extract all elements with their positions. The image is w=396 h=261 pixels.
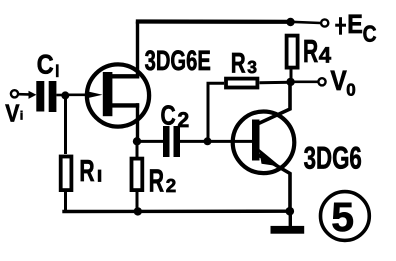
svg-text:C: C: [161, 100, 176, 131]
resistor R3: [226, 79, 257, 88]
arrow into C1: [29, 91, 37, 99]
wire C1 to node A: [56, 94, 65, 97]
transistor Q1 collector lead: [110, 74, 139, 78]
resistor R4: [287, 36, 298, 68]
wire R4 to node B: [290, 70, 293, 83]
wire C2 to node C: [180, 140, 208, 143]
node C junction dot: [204, 137, 212, 145]
node A junction dot: [61, 91, 69, 99]
wire node C to Q2 base: [208, 140, 253, 143]
transistor Q2 base bar: [252, 120, 260, 161]
svg-text:2: 2: [177, 108, 189, 132]
junction dot ground: [286, 207, 295, 216]
svg-text:R: R: [231, 47, 246, 79]
transistor Q1 base bar: [103, 72, 113, 116]
wire R1 to bottom rail: [64, 192, 67, 212]
top rail wire: [136, 19, 291, 23]
wire node B to V0 terminal: [291, 81, 318, 84]
svg-text:V: V: [5, 101, 20, 128]
resistor R1: [61, 157, 72, 191]
svg-text:2: 2: [166, 175, 176, 196]
ground stem: [289, 211, 292, 227]
svg-text:V: V: [330, 65, 347, 96]
input terminal Vi: [11, 90, 18, 97]
svg-text:R: R: [303, 33, 318, 69]
svg-text:C: C: [363, 20, 377, 46]
resistor R2: [132, 159, 143, 191]
node B junction dot: [286, 78, 294, 86]
svg-text:R: R: [149, 163, 164, 199]
svg-text:3: 3: [247, 57, 257, 77]
junction dot C2 left: [133, 137, 141, 145]
wire R2 top: [136, 141, 139, 157]
svg-text:R: R: [79, 155, 94, 188]
wire R3 left leg: [208, 83, 224, 141]
svg-text:0: 0: [346, 81, 355, 100]
junction dot top rail / R4: [286, 18, 294, 26]
svg-text:i: i: [20, 109, 23, 123]
svg-text:5: 5: [331, 194, 354, 240]
transistor Q2 circle: [233, 112, 295, 174]
transistor Q2 emitter lead with arrow: [258, 155, 291, 212]
svg-text:3DG6: 3DG6: [304, 140, 362, 175]
wire input to C1: [18, 93, 33, 96]
figure number circle: [321, 192, 370, 241]
svg-text:4: 4: [319, 42, 332, 67]
terminal V0: [318, 78, 325, 85]
wire R2 to bottom rail: [136, 192, 139, 212]
bottom rail wire: [62, 209, 291, 213]
svg-text:3DG6E: 3DG6E: [145, 45, 211, 76]
svg-text:C: C: [37, 49, 54, 80]
terminal +Ec: [321, 19, 328, 26]
wire node A down to R1: [64, 95, 67, 154]
wire to +Ec terminal: [291, 22, 321, 23]
ground bar: [271, 226, 305, 234]
capacitor C1: [36, 81, 44, 112]
transistor Q2 collector lead: [259, 82, 291, 123]
svg-text:E: E: [347, 9, 363, 39]
transistor Q1 emitter lead: [110, 103, 139, 107]
capacitor C2: [163, 126, 170, 157]
label +Ec plus sign: [339, 17, 342, 35]
junction dot bottom rail below R2: [134, 207, 142, 215]
wire junction to C2: [137, 140, 163, 143]
wire R3 to node B: [260, 81, 292, 85]
wire node A to Q1 base with arrow: [65, 94, 95, 97]
transistor Q1 circle: [87, 64, 149, 126]
